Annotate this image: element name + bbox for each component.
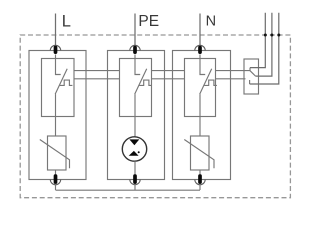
plug pin bottom module 3 — [198, 174, 202, 184]
spark gap F2 box — [120, 59, 152, 117]
net PE (terminal line) — [134, 14, 136, 47]
wire signal out 3 (lower contact to terminal) — [250, 13, 279, 84]
wire varistor R1 to bottom pin — [55, 170, 57, 175]
varistor R3 box — [191, 136, 210, 170]
socket arc bottom module 1 — [50, 180, 60, 185]
socket arc top module 1 — [50, 45, 60, 50]
spark gap F2 blade — [135, 69, 147, 94]
spark gap F2 bottom lead — [134, 94, 136, 116]
svg-text:L: L — [62, 13, 71, 31]
gas discharge tube upper electrode triangle — [129, 139, 139, 145]
spark gap F1 trigger pulse — [60, 80, 73, 85]
contact K1 blade — [250, 71, 256, 76]
junction dot signal line 3 — [277, 34, 280, 37]
remote signalling contact K1 box — [244, 59, 259, 94]
socket arc bottom module 2 — [130, 180, 140, 185]
spark gap F1 top lead with stub — [56, 55, 61, 75]
module 2 (PE) outer box — [108, 51, 165, 180]
wire module 2 bottom pin to PE rail — [134, 184, 136, 190]
device enclosure (dashed outline) — [20, 35, 290, 198]
gas discharge tube (N-PE spark gap) circle — [122, 137, 146, 161]
spark gap F2 top lead with stub — [135, 55, 140, 75]
spark gap F1 blade — [55, 69, 67, 94]
PE rail (bottom bus wire) — [56, 189, 201, 191]
contact K1 upper fixed contact riser — [249, 68, 251, 71]
wire trigger bus upper, module 3 to signal contact — [216, 70, 251, 72]
spark gap F3 trigger pulse — [204, 80, 217, 85]
contact K1 lower fixed contact riser — [249, 80, 251, 84]
spark gap F3 top lead with stub — [200, 55, 205, 75]
wire signal out 2 (common to terminal) — [256, 13, 272, 76]
plug pin bottom module 2 — [133, 174, 137, 184]
gas discharge tube trigger dot — [138, 151, 140, 153]
socket arc top module 2 — [130, 45, 140, 50]
module 3 (N) outer box — [173, 51, 231, 180]
plug pin top module 1 — [54, 46, 58, 54]
wire trigger bus lower, module 3 to signal contact — [216, 78, 246, 80]
wire gas discharge tube to bottom pin — [134, 161, 136, 175]
wire trigger bus upper, module 1 to module 2 — [74, 70, 120, 72]
junction dot signal line 1 — [264, 34, 267, 37]
varistor R3 diagonal — [184, 140, 214, 169]
wire varistor R3 to bottom pin — [199, 170, 201, 175]
plug pin top module 3 — [198, 46, 202, 54]
net N (terminal line) — [199, 14, 201, 47]
spark gap F1 bottom lead — [55, 94, 57, 116]
spark gap F2 trigger pulse — [139, 80, 152, 85]
svg-text:N: N — [206, 13, 216, 29]
spark gap F3 bottom lead — [199, 94, 201, 116]
wire spark gap F2 to gas discharge tube — [134, 117, 136, 138]
net L (terminal line) — [55, 14, 57, 47]
svg-text:PE: PE — [138, 13, 159, 30]
junction dot signal line 2 — [270, 34, 273, 37]
varistor R1 box — [48, 136, 67, 170]
plug pin bottom module 1 — [54, 174, 58, 184]
plug pin top module 2 — [133, 46, 137, 54]
varistor R1 diagonal — [40, 140, 70, 169]
wire signal out 1 (top contact to terminal) — [250, 13, 265, 68]
wire trigger bus lower, module 1 to module 2 — [74, 78, 120, 80]
spark gap F3 box — [185, 59, 216, 117]
wire module 1 bottom pin to PE rail — [55, 184, 57, 190]
spark gap F1 box — [42, 59, 75, 117]
spark gap F3 blade — [200, 69, 212, 94]
wire trigger bus lower, module 2 to module 3 — [152, 78, 185, 80]
wire module 3 bottom pin to PE rail — [199, 184, 201, 190]
wire trigger bus upper, module 2 to module 3 — [152, 70, 185, 72]
wire spark gap F1 to varistor R1 — [55, 117, 57, 137]
gas discharge tube lower electrode triangle — [129, 151, 139, 156]
module 1 (L) outer box — [29, 51, 86, 180]
socket arc bottom module 3 — [195, 180, 205, 185]
wire spark gap F3 to varistor R3 — [199, 117, 201, 137]
socket arc top module 3 — [195, 45, 205, 50]
